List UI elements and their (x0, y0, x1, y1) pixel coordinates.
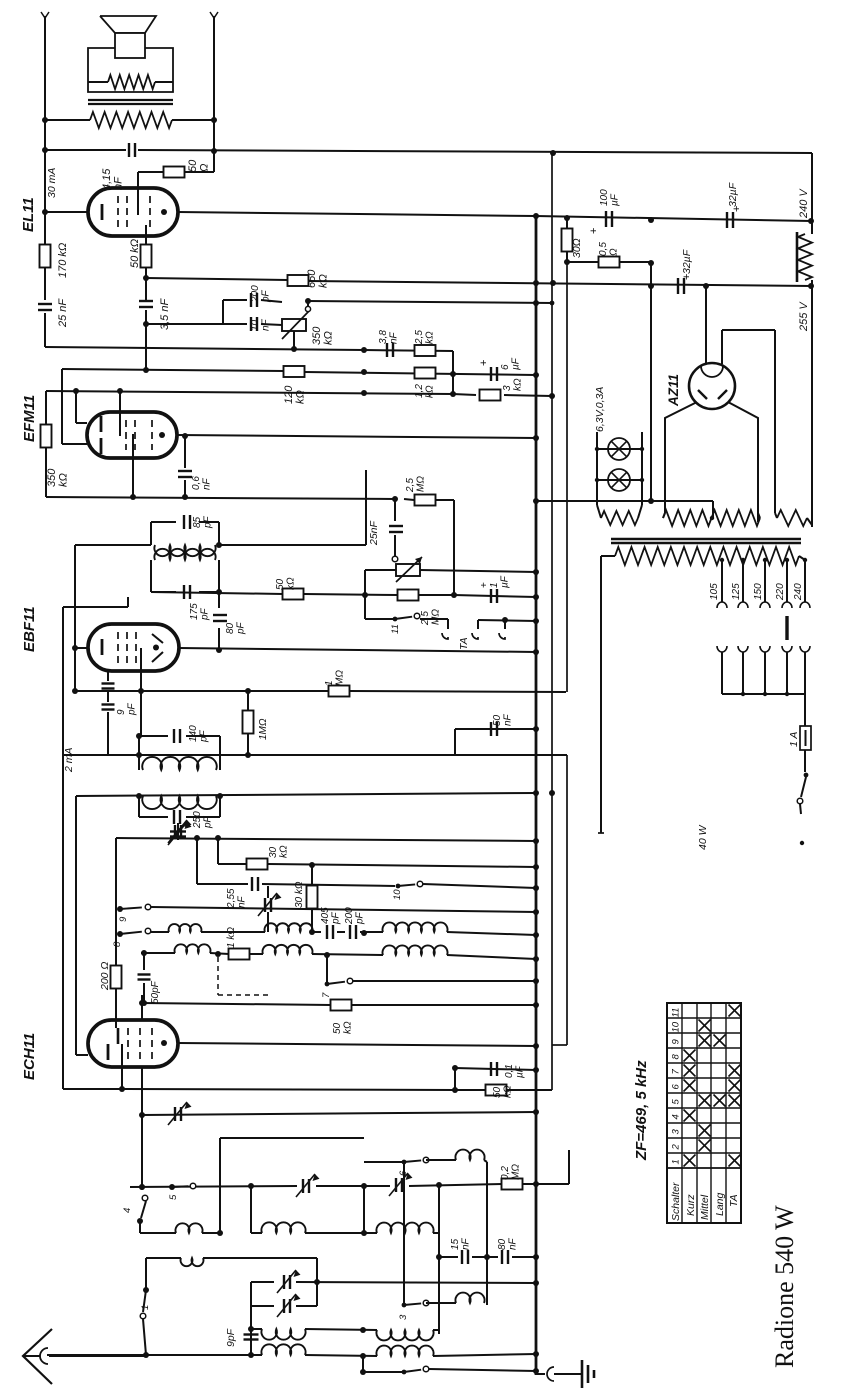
svg-text:pF: pF (235, 621, 246, 635)
TA jacks (478, 620, 536, 621)
svg-text:kΩ: kΩ (424, 331, 435, 344)
junction (361, 347, 367, 353)
right edge rail (811, 153, 813, 234)
trimmer LW (395, 1178, 397, 1192)
capacitor 405 pF (326, 925, 328, 939)
capacitor 0,6 nF (184, 436, 186, 468)
wire AZ11 cathode (721, 330, 723, 364)
resistor 0,5 Ohm (567, 261, 599, 263)
junction (309, 862, 315, 868)
dashed coupling (217, 957, 219, 995)
svg-text:nF: nF (236, 895, 247, 908)
svg-text:40 W: 40 W (697, 824, 709, 850)
primary left lead (601, 555, 615, 557)
resistor 50 kOhm (EL11 grid) (145, 236, 147, 245)
svg-text:µF: µF (510, 357, 521, 370)
svg-text:6: 6 (671, 1084, 682, 1090)
line 1138 (220, 1137, 364, 1139)
trimmer antenna pad (177, 823, 179, 828)
antenna (23, 1329, 52, 1384)
svg-text:250: 250 (192, 811, 203, 829)
line 1283 (296, 1282, 536, 1283)
line IF1 (75, 544, 151, 546)
capacitor 50 nF (490, 722, 492, 736)
junction (216, 589, 222, 595)
svg-text:MΩ: MΩ (430, 609, 441, 625)
svg-text:µF: µF (499, 575, 510, 588)
trimmer (174, 1107, 176, 1121)
line ECH11 plate (178, 1043, 536, 1046)
svg-text:+: + (588, 228, 600, 234)
svg-text:3,8: 3,8 (378, 330, 389, 344)
svg-text:3: 3 (502, 385, 513, 391)
svg-text:5: 5 (671, 1099, 682, 1105)
wire EFM11 grid (61, 369, 63, 444)
svg-text:1,2: 1,2 (414, 384, 425, 398)
line ECH11 cathode 1089 (63, 1088, 122, 1090)
resistor 1 MOhm (329, 686, 350, 697)
svg-text:kΩ: kΩ (342, 1021, 353, 1034)
main bus (chassis) (535, 214, 538, 1375)
svg-text:1: 1 (671, 1159, 682, 1164)
band coil row B (251, 1328, 262, 1330)
junction (136, 752, 142, 758)
svg-text:0,6: 0,6 (191, 476, 202, 490)
tube EFM11 (87, 412, 177, 458)
svg-text:kΩ: kΩ (317, 274, 329, 288)
capacitor 0,1 uF (490, 1062, 492, 1076)
junction (533, 280, 539, 286)
tube ECH11 (88, 1020, 178, 1067)
wire (453, 500, 455, 595)
junction (245, 688, 251, 694)
svg-text:pF: pF (202, 515, 213, 529)
svg-text:9: 9 (118, 916, 129, 922)
svg-text:85: 85 (192, 516, 203, 528)
line 50 nF (455, 728, 536, 730)
svg-text:ECH11: ECH11 (21, 1033, 38, 1080)
svg-text:200 Ω: 200 Ω (99, 962, 111, 991)
line 10 nF (146, 323, 223, 325)
junction (143, 275, 149, 281)
wire (454, 1068, 456, 1090)
line 796 (76, 793, 536, 796)
rail jog (568, 1150, 570, 1184)
resistor 50 Ohm (138, 171, 164, 173)
junction (216, 647, 222, 653)
resistor 2,5 MOhm (415, 495, 436, 506)
left rail AVC (74, 545, 76, 691)
svg-text:10: 10 (392, 889, 403, 900)
junction (361, 1230, 367, 1236)
svg-text:50pF: 50pF (150, 980, 161, 1004)
svg-text:Kurz: Kurz (685, 1194, 697, 1216)
svg-text:1: 1 (140, 1305, 151, 1310)
svg-text:pF: pF (202, 815, 213, 829)
wire to jack (420, 618, 448, 620)
svg-text:µF: µF (514, 1065, 525, 1078)
table X marks Kurz (684, 1155, 696, 1167)
wire (145, 310, 147, 372)
vertical (115, 838, 117, 1021)
svg-text:Radione 540 W: Radione 540 W (770, 1205, 799, 1368)
switch table frame (667, 1003, 741, 1223)
wire ECH11 grid (76, 1054, 88, 1056)
line 120 kOhm (62, 369, 284, 371)
junction (42, 147, 48, 153)
IF coil 3 (142, 757, 216, 770)
table X marks Lang (714, 1095, 726, 1107)
trimmer (264, 898, 266, 912)
svg-text:150: 150 (753, 583, 764, 600)
line AF 595 (151, 592, 283, 594)
line 30 kOhm (218, 863, 246, 865)
osc coil (142, 796, 216, 809)
svg-text:nF: nF (460, 1237, 471, 1250)
capacitor 255 nF (251, 877, 253, 891)
band coil row A (140, 1232, 176, 1234)
wire (141, 995, 143, 1021)
svg-text:30: 30 (268, 846, 279, 858)
wire (45, 119, 90, 121)
svg-text:2 mA: 2 mA (63, 747, 75, 773)
switch 7 (326, 955, 328, 984)
output transformer frame (88, 48, 173, 92)
junction (484, 1254, 490, 1260)
right speaker rail (213, 16, 215, 172)
junction (42, 117, 48, 123)
svg-text:4: 4 (122, 1208, 133, 1213)
output transformer primary winding (90, 112, 172, 128)
svg-text:9: 9 (671, 1039, 682, 1045)
wire (217, 838, 219, 864)
svg-text:Ω: Ω (198, 164, 210, 172)
svg-text:350: 350 (46, 468, 58, 487)
wire AZ11 anode top (705, 286, 707, 364)
capacitor 32 uF (1) (726, 212, 728, 228)
wire ECH11 g (141, 1067, 143, 1187)
IF transformer tank 2 (175 pF) (150, 560, 152, 592)
line B+ 217 (536, 216, 811, 221)
line switch 8 (118, 932, 123, 937)
svg-text:200: 200 (250, 285, 261, 303)
svg-text:50: 50 (187, 159, 199, 172)
svg-text:EL11: EL11 (20, 197, 37, 232)
resistor 50 kOhm (331, 1000, 352, 1011)
svg-text:140: 140 (188, 725, 199, 742)
line B (46, 391, 453, 394)
capacitor 140 pF (173, 729, 175, 743)
wire AZ11 filament right (728, 402, 758, 522)
rail 2 (551, 153, 553, 1083)
switch 3 (402, 1303, 407, 1308)
svg-text:32µF: 32µF (727, 182, 739, 207)
ground wire (533, 1368, 539, 1374)
B+ line to PSU (240V) (45, 149, 126, 151)
svg-text:0,5: 0,5 (598, 242, 609, 256)
svg-text:7: 7 (671, 1069, 682, 1075)
rectifier tube AZ11 (689, 363, 735, 409)
svg-text:240 V: 240 V (798, 188, 810, 219)
svg-text:AZ11: AZ11 (666, 374, 681, 407)
svg-text:2,5: 2,5 (414, 330, 425, 345)
primary winding (615, 547, 799, 565)
svg-text:kΩ: kΩ (57, 473, 69, 487)
svg-text:kΩ: kΩ (512, 378, 523, 391)
svg-text:15: 15 (450, 1238, 461, 1250)
svg-text:175: 175 (189, 603, 200, 620)
wire (145, 1258, 147, 1290)
junction (533, 435, 539, 441)
svg-text:220: 220 (775, 583, 786, 601)
pot loop (365, 569, 396, 571)
wire (222, 300, 224, 324)
capacitors 9 pF (EBF11) (107, 671, 109, 681)
jack (442, 633, 448, 639)
svg-text:11: 11 (671, 1008, 682, 1018)
line switch 9 (118, 907, 123, 912)
svg-text:50: 50 (275, 578, 286, 590)
line 255V / 650 kOhm (146, 278, 287, 280)
resistor 2,5 MOhm (grid) (398, 590, 419, 601)
wire EFM11 bottom (132, 458, 134, 497)
svg-text:nF: nF (502, 713, 513, 726)
capacitor 6 uF electrolytic (490, 367, 492, 381)
wire EL11 plate right to bus (178, 212, 535, 216)
resistor 170 kOhm (44, 212, 46, 245)
svg-text:10: 10 (250, 319, 261, 331)
verticals to coils (250, 1186, 252, 1233)
svg-text:5: 5 (168, 1194, 179, 1200)
resistor 3 kOhm (480, 390, 501, 401)
svg-text:10: 10 (671, 1021, 682, 1032)
svg-text:1 kΩ: 1 kΩ (226, 927, 237, 948)
line 301 to rails (308, 301, 553, 303)
trimmer MW (302, 1179, 304, 1193)
svg-text:kΩ: kΩ (424, 385, 435, 398)
svg-text:pF: pF (260, 289, 271, 303)
resistor 120 kOhm (284, 366, 305, 377)
svg-text:kΩ: kΩ (278, 845, 289, 858)
wire pot to 301-line (307, 301, 309, 306)
resistor 50 kOhm (283, 589, 304, 600)
svg-text:32µF: 32µF (681, 249, 693, 274)
left rail 3 (osc grid) (75, 796, 77, 1055)
svg-text:MΩ: MΩ (334, 670, 345, 686)
table X marks Mittel (699, 1140, 711, 1152)
antenna trimmer 2 (251, 1305, 274, 1307)
wire EL11 anode top (137, 172, 139, 190)
dropper resistor (798, 234, 812, 280)
svg-text:µF: µF (609, 193, 620, 206)
svg-text:125: 125 (731, 583, 742, 600)
svg-text:80: 80 (497, 1238, 508, 1250)
svg-text:200: 200 (344, 907, 355, 925)
wire pot bottom (293, 331, 295, 349)
svg-text:TA: TA (728, 1194, 740, 1207)
svg-text:ZF=469, 5 kHz: ZF=469, 5 kHz (633, 1060, 650, 1161)
capacitor 1 uF (490, 589, 492, 603)
wire (452, 351, 454, 394)
line 1 MOhm (75, 690, 329, 692)
svg-text:nF: nF (507, 1237, 518, 1250)
junction (451, 592, 457, 598)
wire EFM11 plate out (177, 435, 536, 438)
junction (533, 300, 539, 306)
volume potentiometer 2,5 MOhm (396, 564, 420, 576)
capacitor 85 pF (183, 515, 185, 529)
antenna line row C (47, 1354, 262, 1356)
ground symbol (581, 1360, 584, 1388)
wire EBF11 grid left (75, 647, 88, 649)
line band switch 1187 (130, 1186, 297, 1187)
svg-text:kΩ: kΩ (502, 1085, 513, 1098)
capacitor 3,5 nF (139, 300, 153, 302)
junction (648, 260, 654, 266)
svg-text:MΩ: MΩ (510, 1164, 521, 1180)
capacitor 9 pF antenna (248, 1326, 254, 1332)
switch 10 (396, 884, 401, 889)
svg-text:3,5 nF: 3,5 nF (159, 298, 171, 330)
junction (703, 283, 709, 289)
svg-text:50: 50 (332, 1022, 343, 1034)
capacitor 175 pF (151, 591, 176, 593)
capacitor 200 pF (349, 925, 351, 939)
svg-text:50 kΩ: 50 kΩ (129, 239, 141, 268)
svg-text:+: + (478, 360, 490, 366)
line 838 (116, 838, 536, 841)
junction (309, 929, 315, 935)
junction (808, 283, 814, 289)
line EBF11 plate (179, 648, 536, 652)
svg-text:Lang: Lang (714, 1192, 726, 1216)
svg-text:50: 50 (492, 714, 503, 726)
svg-text:8: 8 (112, 941, 123, 947)
capacitor 100 uF (605, 211, 607, 227)
junction (141, 950, 147, 956)
resistor 200 Ohm (111, 966, 122, 989)
junction (564, 259, 570, 265)
potentiometer 350 kOhm (282, 319, 306, 331)
loudspeaker (100, 16, 156, 33)
svg-text:pF: pF (126, 702, 137, 716)
switch 6 (364, 1161, 404, 1163)
wire 350k top (45, 391, 47, 425)
junction (139, 1000, 145, 1006)
capacitor 80 pF (218, 592, 220, 608)
resistor 1 MOhm vertical (243, 711, 254, 734)
svg-text:25 nF: 25 nF (57, 298, 69, 328)
junction (360, 1327, 366, 1333)
junction (550, 394, 555, 399)
junction (452, 1087, 458, 1093)
svg-text:0,2: 0,2 (500, 1166, 511, 1180)
svg-text:1: 1 (324, 680, 335, 686)
junction (139, 1184, 145, 1190)
left rail 2 (62, 607, 64, 1089)
svg-text:2,5: 2,5 (405, 478, 416, 493)
wire CT (712, 514, 714, 518)
line 2,5 MOhm (46, 497, 395, 499)
svg-text:25nF: 25nF (368, 520, 380, 546)
transformer core (611, 538, 801, 540)
junction (143, 367, 149, 373)
switch chain vertical (403, 1162, 405, 1305)
line 50 kOhm osc (142, 1003, 331, 1005)
wire (44, 313, 46, 347)
svg-text:105: 105 (709, 583, 720, 600)
resistor 30 Ohm (562, 229, 573, 252)
mains taps (721, 560, 723, 602)
svg-text:650: 650 (306, 269, 318, 288)
line ground-ish 755 (63, 754, 567, 756)
wire (196, 838, 198, 884)
line 255V right (650, 263, 652, 501)
left speaker rail (44, 16, 46, 212)
svg-text:80: 80 (225, 622, 236, 634)
voltage plug (785, 616, 788, 640)
line trimmer 1115 (142, 1112, 536, 1115)
svg-text:7: 7 (321, 992, 332, 998)
capacitor 250 pF (173, 810, 175, 824)
trimmer osc (177, 827, 179, 838)
junction (194, 835, 200, 841)
svg-text:350: 350 (311, 326, 323, 345)
junction (215, 951, 221, 957)
pilot lamps 6,3V (596, 432, 598, 505)
line A (45, 347, 364, 350)
svg-text:Ω: Ω (608, 248, 619, 256)
switch 1 (143, 1287, 149, 1293)
IF transformer tank 1 (85 pF) (150, 522, 152, 545)
rail 3 (566, 262, 568, 692)
svg-text:nF: nF (388, 331, 399, 344)
wire (267, 886, 269, 898)
svg-text:6: 6 (500, 364, 511, 370)
capacitor 3,8 nF (386, 343, 388, 357)
svg-text:nF: nF (201, 477, 212, 490)
switch 2 (bottom) (362, 1356, 364, 1372)
fuse 1 A (804, 694, 806, 726)
speaker field coil (zigzag) (108, 75, 155, 89)
svg-text:pF: pF (199, 607, 210, 621)
junction (136, 733, 142, 739)
junction (143, 1352, 149, 1358)
svg-text:kΩ: kΩ (285, 577, 296, 590)
svg-text:405: 405 (320, 907, 331, 924)
svg-text:EFM11: EFM11 (21, 395, 38, 442)
switch 4 (142, 1195, 148, 1201)
resistor 30 kOhm vertical (311, 865, 313, 886)
junction (211, 117, 217, 123)
IF transformer 1 secondary (140 pF tank) (138, 736, 140, 770)
svg-text:9: 9 (116, 709, 127, 715)
svg-text:pF: pF (198, 729, 209, 743)
wire EBF11 cathode down (140, 671, 142, 736)
wire (365, 470, 367, 545)
svg-text:30 mA: 30 mA (46, 168, 58, 198)
wire (115, 1021, 117, 1028)
wire (63, 606, 128, 608)
wire EFM11 g2 (75, 391, 77, 423)
svg-text:TA: TA (458, 637, 470, 650)
svg-text:11: 11 (390, 624, 401, 634)
resistor 50 kOhm cathode (486, 1085, 507, 1096)
junction (136, 793, 142, 799)
wire EL11 grid left (45, 211, 88, 213)
capacitor 50 pF (143, 953, 145, 970)
svg-text:8: 8 (671, 1054, 682, 1060)
